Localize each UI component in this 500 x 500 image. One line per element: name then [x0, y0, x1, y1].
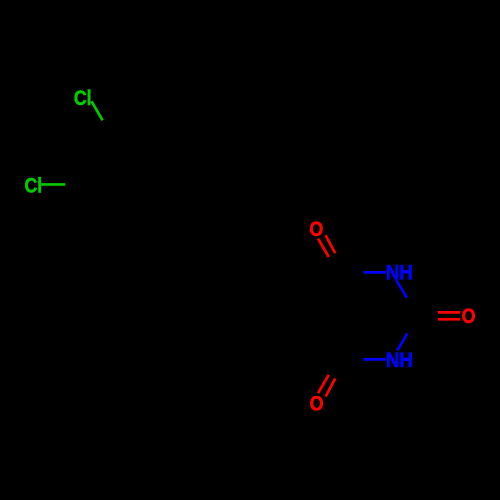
svg-text:O: O: [309, 217, 323, 241]
svg-text:Cl: Cl: [74, 86, 92, 110]
svg-text:NH: NH: [386, 261, 413, 285]
svg-text:O: O: [462, 304, 476, 328]
svg-text:O: O: [310, 392, 324, 416]
svg-text:Cl: Cl: [25, 173, 43, 197]
svg-text:NH: NH: [386, 348, 413, 372]
